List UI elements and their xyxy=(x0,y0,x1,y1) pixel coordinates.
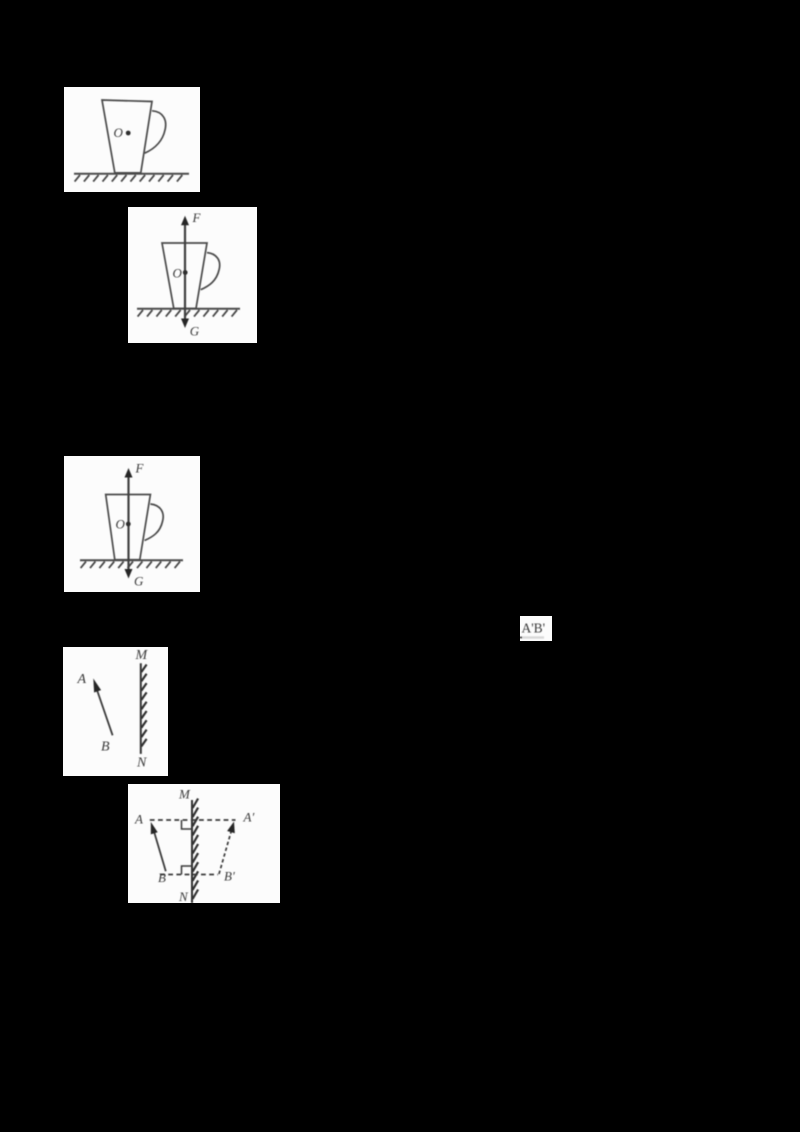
svg-text:F: F xyxy=(135,461,145,476)
svg-text:A: A xyxy=(77,672,87,687)
svg-text:O: O xyxy=(116,517,126,532)
svg-text:N: N xyxy=(178,889,189,903)
svg-text:N: N xyxy=(136,756,147,771)
svg-text:A'B': A'B' xyxy=(522,621,546,636)
svg-text:G: G xyxy=(134,573,144,588)
svg-text:A′: A′ xyxy=(243,810,255,825)
svg-text:B: B xyxy=(158,870,166,885)
svg-text:B: B xyxy=(101,740,110,755)
svg-text:O: O xyxy=(114,125,124,140)
svg-text:M: M xyxy=(178,787,191,802)
svg-text:A: A xyxy=(134,812,143,827)
svg-text:B′: B′ xyxy=(224,869,235,884)
svg-text:G: G xyxy=(190,324,200,339)
svg-text:M: M xyxy=(135,648,149,663)
svg-text:O: O xyxy=(173,266,183,281)
svg-text:F: F xyxy=(192,210,202,225)
